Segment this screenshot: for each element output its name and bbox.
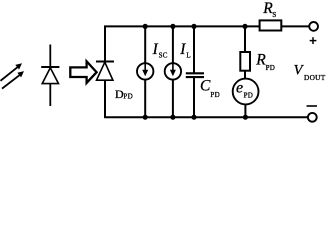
label I_SC (152, 41, 168, 60)
junction dot bottom C_PD (191, 115, 196, 120)
label V_DOUT (294, 62, 326, 82)
wire: I_L branch bottom stub (172, 80, 174, 118)
junction dot top I_SC (143, 24, 148, 29)
photodiode symbol (left) (41, 45, 59, 107)
junction dot top C_PD (191, 24, 196, 29)
junction dot top R_PD (242, 24, 247, 29)
resistor R_PD (240, 52, 250, 71)
output terminal - (bottom right) (308, 113, 317, 122)
svg-text:e: e (236, 79, 243, 96)
label I_L (179, 41, 190, 60)
svg-text:R: R (255, 51, 266, 68)
label D_PD (115, 87, 133, 101)
junction dot bottom e_PD (243, 115, 248, 120)
svg-text:SC: SC (159, 52, 168, 60)
output terminal + (top right) (309, 22, 318, 31)
wire: C_PD branch bottom stub (193, 78, 195, 118)
wire: I_L branch top stub (172, 26, 174, 63)
light arrow 1 (incident light) (1, 63, 23, 81)
svg-text:S: S (272, 11, 276, 19)
junction dot bottom I_SC (143, 115, 148, 120)
current source I_SC (137, 63, 153, 79)
wire: top rail left of Rs (104, 25, 260, 27)
wire: bottom rail (104, 116, 308, 118)
label e_PD (236, 79, 253, 99)
wire: e_PD bottom stub (244, 104, 246, 117)
wire: R_PD to e_PD stub (244, 70, 246, 79)
wire: top rail right of Rs (281, 25, 309, 27)
wire: left vertical branch (104, 26, 106, 118)
svg-text:PD: PD (266, 64, 276, 72)
svg-text:I: I (179, 41, 186, 58)
capacitor C_PD (186, 73, 204, 77)
svg-text:PD: PD (123, 93, 133, 101)
label C_PD (200, 78, 220, 99)
wire: I_SC branch top stub (144, 26, 146, 63)
diode D_PD (96, 62, 114, 81)
svg-text:PD: PD (210, 91, 220, 99)
svg-text:DOUT: DOUT (304, 73, 326, 82)
resistor R_S (260, 20, 282, 30)
junction dot top I_L (170, 24, 175, 29)
svg-text:C: C (200, 78, 211, 95)
svg-text:I: I (152, 41, 159, 58)
minus sign (307, 105, 318, 107)
light arrow 2 (incident light) (2, 71, 24, 89)
wire: R_PD branch top stub (244, 26, 246, 52)
svg-text:L: L (186, 52, 190, 60)
svg-text:PD: PD (244, 92, 254, 100)
noise source e_PD (233, 79, 259, 105)
label R_PD (255, 51, 275, 72)
junction dot bottom I_L (170, 115, 175, 120)
wire: I_SC branch bottom stub (144, 80, 146, 118)
label R_S (262, 0, 276, 19)
block arrow (equivalence) (70, 61, 96, 83)
current source I_L (165, 63, 181, 79)
plus sign (310, 37, 317, 44)
wire: C_PD branch top stub (193, 26, 195, 73)
